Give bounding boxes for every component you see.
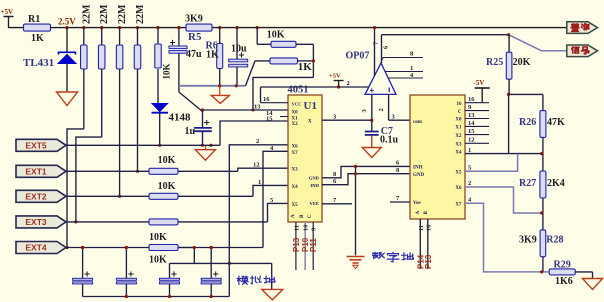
port 信号 (signal) [567, 45, 598, 57]
resistor R4x 22M (column 4) [134, 4, 146, 171]
svg-text:X3: X3 [292, 168, 299, 173]
svg-text:VCC: VCC [292, 101, 302, 106]
wire: EXT2 to U1 X4 pin1 [253, 185, 288, 196]
port EXT3 [16, 216, 66, 228]
U2 com stub handled above; INH/GND left stubs labels [390, 160, 410, 203]
wire: divider node to U1 X0 (net A) [252, 44, 316, 111]
resistor R26 47K [519, 111, 565, 156]
svg-text:A: A [291, 214, 296, 218]
svg-text:2: 2 [347, 80, 350, 87]
svg-text:X6: X6 [455, 186, 462, 191]
ground analog (模拟地) [262, 289, 283, 300]
resistor R28 3K9 [519, 213, 564, 274]
op-amp U3 OP07 [346, 51, 397, 96]
port 基准 (reference) [567, 22, 598, 34]
svg-text:10u: 10u [231, 44, 247, 55]
svg-text:X4: X4 [292, 185, 299, 190]
svg-text:1: 1 [258, 179, 261, 186]
resistor R2x 22M (column 2) [98, 4, 110, 137]
wire: EXT3 to U1 X5 pin5 [268, 203, 289, 222]
resistor R29 1K6 [549, 260, 592, 288]
svg-text:GND: GND [309, 175, 320, 180]
svg-text:16: 16 [263, 96, 270, 103]
wire: U2 X5 pin5 riser to tap [465, 154, 518, 172]
wire: U1 X6 pin2 to analog ground bus [228, 145, 288, 265]
ground (TL431) [57, 92, 78, 106]
svg-text:EXT3: EXT3 [25, 217, 47, 227]
U1 right pin stubs [322, 113, 410, 204]
port EXT5 [16, 139, 66, 151]
svg-text:X4: X4 [455, 151, 462, 156]
svg-text:P13: P13 [424, 254, 433, 269]
power port +5V (top-left) [1, 8, 14, 28]
capacitor 47u electrolytic [169, 26, 202, 92]
svg-text:EXT2: EXT2 [25, 191, 47, 201]
U1 bottom pins A B C / P13 P10 P11 [291, 214, 318, 270]
svg-text:15: 15 [266, 115, 273, 122]
resistor R6 1K (vertical) [206, 26, 223, 86]
wire: op-amp inverting input bus y87 [261, 80, 369, 89]
svg-text:X1: X1 [292, 116, 299, 121]
capacitor C1 electrolytic (bottom row) [73, 246, 93, 297]
svg-text:X5: X5 [455, 170, 462, 175]
ground digital (数字地 earth) [347, 257, 365, 269]
ground (C7) [362, 148, 381, 158]
svg-text:0.1u: 0.1u [380, 135, 399, 146]
svg-text:R28: R28 [546, 235, 563, 246]
U2 right pin stubs with numbers [465, 96, 489, 144]
resistor 10K (EXT1 row) [66, 155, 238, 174]
svg-text:+5V: +5V [1, 8, 14, 16]
svg-text:3K9: 3K9 [519, 235, 537, 246]
svg-text:R27: R27 [519, 178, 536, 189]
wire: 22M col2 jog to x76 down to EXT3 row [74, 137, 101, 223]
svg-text:P13: P13 [292, 237, 301, 252]
resistor 10K (EXT3 row) [66, 219, 268, 243]
svg-text:X: X [308, 120, 312, 125]
svg-text:10K: 10K [149, 255, 167, 266]
svg-text:OP07: OP07 [346, 51, 370, 62]
resistor R27 2K4 [519, 154, 565, 215]
svg-text:+: + [370, 86, 375, 95]
wire: EXT1 jog to U1 X3 pin12 [238, 168, 288, 171]
svg-text:3K9: 3K9 [185, 14, 203, 25]
wire: U2 X6 pin2 to R27/R28 tap [465, 180, 542, 213]
port EXT1 [16, 165, 66, 177]
svg-text:15: 15 [468, 128, 475, 135]
wire: EXT4 to U1 X7 pin4 [263, 151, 288, 247]
svg-text:1K: 1K [31, 33, 44, 44]
svg-text:2.5V: 2.5V [58, 17, 76, 27]
capacitor 1u [185, 110, 212, 145]
power port -5V (U2 pin16) [474, 79, 490, 103]
U1 left pin stubs and numbers [253, 96, 288, 204]
svg-text:R29: R29 [554, 260, 571, 271]
svg-text:com: com [413, 120, 423, 125]
svg-text:EXT5: EXT5 [25, 140, 47, 150]
resistor R1x 22M (column 1) [81, 4, 93, 129]
node 2.5V [58, 17, 76, 30]
wire: EXT5 to U1 X2 (pin15 riser) [220, 121, 288, 145]
power port +5V (op-amp) [329, 73, 344, 88]
svg-text:1K: 1K [206, 50, 219, 61]
svg-text:R5: R5 [188, 31, 202, 43]
IC U2 multiplexer (mirrored) [410, 95, 465, 219]
svg-text:20K: 20K [513, 57, 531, 68]
wire: digital ground riser [354, 165, 357, 256]
svg-text:13: 13 [468, 112, 475, 119]
capacitor C2 electrolytic (bottom row) [116, 246, 136, 297]
svg-text:X7: X7 [455, 203, 462, 208]
svg-text:10: 10 [425, 225, 432, 232]
TL431 shunt reference [23, 52, 76, 92]
resistor 10K (EXT4 row) [66, 245, 263, 266]
svg-text:22M: 22M [135, 4, 146, 24]
wire: U1 pin13 row to 1u node [201, 108, 288, 111]
svg-text:10K: 10K [267, 30, 285, 41]
ground (R6 row) [211, 86, 229, 104]
wire: analog bus row y85.8 (47u/R6/10u bottoms) [179, 84, 246, 87]
svg-text:C: C [308, 214, 313, 218]
svg-text:11: 11 [293, 225, 300, 231]
svg-text:1u: 1u [185, 126, 196, 137]
resistor R5 3K9 [185, 14, 212, 44]
resistor 10K (EXT2 row) [66, 181, 253, 199]
svg-text:EXT1: EXT1 [25, 166, 47, 176]
wire: diagonal to 信号 port [509, 35, 567, 51]
svg-text:Vee: Vee [413, 201, 421, 206]
svg-text:13: 13 [254, 104, 261, 111]
svg-text:TL431: TL431 [23, 57, 54, 69]
svg-text:X6: X6 [292, 144, 299, 149]
resistor R3x 22M (column 3) [116, 4, 128, 196]
svg-text:A: A [416, 211, 421, 215]
svg-text:VEE: VEE [310, 201, 319, 206]
svg-text:10K: 10K [149, 232, 167, 243]
wire: analog ground drop [271, 263, 273, 289]
resistor 10K (vertical, x158) [155, 26, 172, 104]
svg-text:47u: 47u [186, 49, 202, 60]
diode D1 4148 [152, 104, 192, 147]
wire: EXT5 row [66, 144, 220, 146]
wire: output net to signal node [382, 33, 511, 36]
svg-text:X3: X3 [455, 143, 462, 148]
IC U1 4051 multiplexer [288, 85, 323, 223]
svg-text:P11: P11 [309, 238, 318, 252]
OP07 no-connect stubs pins 8 1 4 [382, 51, 424, 79]
svg-text:R25: R25 [486, 57, 503, 68]
wire: bottom rail (cap commons) [83, 263, 230, 298]
wire: OP07 pin7 V+ riser to 2.5V rail [373, 26, 380, 76]
resistor R1 1K [24, 14, 51, 44]
svg-text:2K4: 2K4 [547, 178, 565, 189]
svg-text:12: 12 [253, 162, 260, 169]
svg-text:X7: X7 [292, 151, 299, 156]
svg-text:4051: 4051 [288, 85, 309, 96]
svg-text:X1: X1 [455, 126, 462, 131]
wire: U1 VCC riser to op-amp input bus [260, 87, 262, 103]
svg-text:EXT4: EXT4 [25, 243, 47, 253]
label 模拟地 [237, 276, 275, 284]
wire: OP07 pin3 + input [361, 94, 373, 121]
svg-text:X0: X0 [455, 118, 462, 123]
svg-text:22M: 22M [81, 4, 92, 24]
svg-text:22M: 22M [99, 4, 110, 24]
svg-text:X2: X2 [292, 122, 299, 127]
svg-text:INH: INH [413, 166, 423, 171]
svg-text:+5V: +5V [329, 73, 341, 80]
svg-text:2: 2 [378, 108, 385, 111]
resistor 10K (upper, horizontal) [256, 26, 314, 47]
capacitor C7 0.1u [365, 120, 399, 147]
svg-text:12: 12 [468, 137, 475, 144]
wire: OP07 pin6 output riser [382, 35, 390, 63]
svg-text:10K: 10K [158, 181, 176, 192]
svg-text:14: 14 [468, 120, 475, 127]
wire: diagonal bus to 1K left lead [246, 61, 256, 86]
svg-text:X0: X0 [292, 110, 299, 115]
svg-text:C: C [458, 110, 462, 115]
port EXT2 [16, 190, 66, 202]
svg-text:GND: GND [413, 173, 425, 178]
junction: 22M col3 to EXT2 row [118, 195, 121, 198]
svg-text:22M: 22M [117, 4, 128, 24]
svg-text:10: 10 [303, 225, 310, 232]
wire: U2 X7 pin4 to R28/R29 node [465, 197, 549, 272]
junction: 22M col4 to EXT1 row [136, 170, 139, 173]
resistor R25 20K [486, 35, 531, 95]
svg-text:INH: INH [310, 183, 319, 188]
wire: R25 bottom to chain top [507, 93, 543, 154]
svg-text:4148: 4148 [169, 112, 192, 124]
ground (EXT5 row) [195, 144, 215, 161]
svg-text:R1: R1 [28, 14, 40, 25]
port EXT4 [16, 242, 66, 254]
svg-text:47K: 47K [547, 117, 565, 128]
wire: +2.5V reference top rail [8, 27, 567, 29]
svg-text:U1: U1 [304, 100, 317, 112]
svg-text:X5: X5 [292, 203, 299, 208]
svg-text:1K: 1K [298, 61, 313, 73]
svg-text:2: 2 [468, 180, 471, 187]
svg-text:1: 1 [468, 147, 471, 154]
wire: diagonal 47u bottom to 1u node [179, 92, 203, 112]
svg-text:X2: X2 [455, 134, 462, 139]
capacitor C3 electrolytic (bottom row) [160, 263, 180, 296]
U2 bottom pins 11 10 / P14 P13 [416, 219, 433, 269]
capacitor 10u electrolytic [229, 26, 248, 86]
wire: OP07 pin2 to U2 com [378, 94, 410, 120]
wire: U2 X4 pin1 to R26/R27 tap [465, 147, 542, 154]
svg-text:16: 16 [457, 102, 463, 107]
svg-text:1K6: 1K6 [555, 276, 573, 287]
capacitor C3 electrolytic (bottom row) [201, 246, 221, 297]
wire: 22M col1 jog to x67 down to EXT4 row [65, 129, 83, 249]
svg-text:10K: 10K [158, 155, 176, 166]
svg-text:-5V: -5V [474, 79, 485, 87]
label 数字地 [373, 252, 414, 261]
svg-text:11: 11 [418, 225, 425, 231]
svg-text:2: 2 [256, 138, 259, 145]
svg-text:16: 16 [468, 96, 475, 103]
svg-text:R26: R26 [519, 117, 536, 128]
wire: analog ground bus y263.4 [81, 246, 272, 264]
ground (R29) [583, 279, 603, 290]
svg-text:10K: 10K [162, 63, 172, 79]
wire: 2.5V node to TL431 [66, 28, 68, 52]
resistor 1K (lower, horizontal) [255, 58, 313, 73]
